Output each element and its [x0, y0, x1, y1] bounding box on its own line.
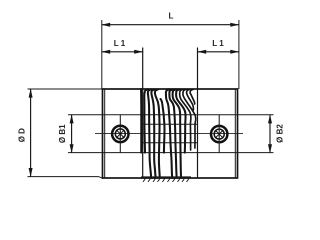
svg-text:Ø B1: Ø B1 — [58, 124, 67, 143]
svg-text:L 1: L 1 — [212, 39, 224, 48]
svg-text:L: L — [169, 12, 174, 21]
svg-text:L 1: L 1 — [114, 39, 126, 48]
svg-text:Ø D: Ø D — [18, 128, 27, 142]
svg-text:Ø B2: Ø B2 — [275, 124, 284, 143]
